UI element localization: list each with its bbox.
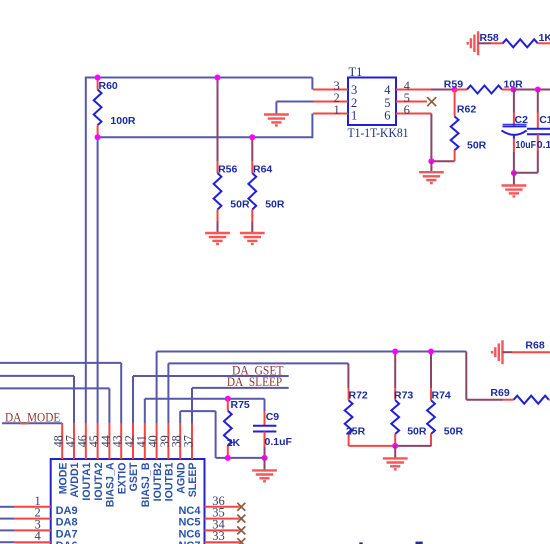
svg-text:R64: R64 — [253, 164, 272, 176]
svg-text:50R: 50R — [467, 140, 487, 152]
svg-text:IOUTB1: IOUTB1 — [164, 462, 176, 501]
svg-text:DA8: DA8 — [56, 517, 78, 529]
svg-text:R75: R75 — [231, 399, 250, 411]
svg-text:1: 1 — [351, 109, 357, 123]
svg-text:50R: 50R — [265, 199, 285, 211]
svg-text:AVDD1: AVDD1 — [69, 462, 81, 497]
svg-text:MODE: MODE — [57, 463, 69, 495]
svg-text:AGND: AGND — [175, 462, 187, 494]
svg-text:NC5: NC5 — [178, 517, 200, 529]
svg-text:DA6: DA6 — [56, 540, 78, 544]
svg-text:4: 4 — [34, 529, 41, 543]
svg-text:R73: R73 — [394, 390, 413, 402]
svg-text:NC4: NC4 — [178, 505, 201, 517]
svg-text:R68: R68 — [525, 340, 544, 352]
svg-text:10uF: 10uF — [516, 139, 537, 151]
svg-text:6: 6 — [404, 103, 410, 117]
svg-text:R72: R72 — [349, 390, 368, 402]
svg-text:1: 1 — [333, 103, 339, 117]
svg-text:C2: C2 — [515, 114, 529, 126]
svg-text:0.1uF: 0.1uF — [537, 139, 550, 151]
svg-text:2: 2 — [351, 96, 357, 110]
svg-text:50R: 50R — [230, 199, 250, 211]
svg-text:R62: R62 — [457, 103, 476, 115]
svg-text:37: 37 — [182, 435, 196, 447]
svg-text:DA9: DA9 — [56, 505, 78, 517]
svg-text:50R: 50R — [407, 426, 427, 438]
svg-text:BIASJ_B: BIASJ_B — [140, 462, 152, 507]
svg-text:R69: R69 — [490, 387, 509, 399]
svg-text:R56: R56 — [218, 164, 237, 176]
svg-text:DA_MODE: DA_MODE — [5, 410, 61, 424]
svg-text:1K: 1K — [539, 32, 550, 44]
svg-text:4: 4 — [384, 83, 391, 97]
svg-text:NC7: NC7 — [178, 540, 200, 544]
svg-text:EXTIO: EXTIO — [116, 463, 128, 495]
svg-text:DA_SLEEP: DA_SLEEP — [227, 375, 282, 389]
svg-text:2K: 2K — [227, 437, 241, 449]
svg-text:BIASJ_A: BIASJ_A — [105, 462, 117, 507]
svg-text:25R: 25R — [346, 426, 366, 438]
svg-text:GSET: GSET — [128, 462, 140, 491]
svg-text:33: 33 — [212, 529, 225, 543]
svg-text:NC6: NC6 — [178, 528, 200, 540]
svg-text:IOUTA1: IOUTA1 — [81, 462, 93, 500]
svg-text:T1: T1 — [349, 65, 363, 79]
svg-text:SLEEP: SLEEP — [187, 463, 199, 498]
svg-text:DA7: DA7 — [56, 528, 78, 540]
svg-text:C9: C9 — [266, 411, 280, 423]
svg-text:0.1uF: 0.1uF — [265, 436, 293, 448]
svg-text:IOUTA2: IOUTA2 — [93, 462, 105, 500]
svg-text:5: 5 — [384, 96, 390, 110]
svg-text:C1: C1 — [539, 114, 550, 126]
svg-text:50R: 50R — [444, 426, 464, 438]
svg-text:R58: R58 — [480, 32, 499, 44]
svg-text:R60: R60 — [99, 80, 118, 92]
svg-text:6: 6 — [384, 109, 390, 123]
svg-text:3: 3 — [351, 83, 357, 97]
svg-text:T1-1T-KK81: T1-1T-KK81 — [348, 126, 409, 140]
svg-text:R74: R74 — [432, 390, 451, 402]
svg-text:100R: 100R — [110, 115, 136, 127]
svg-text:IOUTB2: IOUTB2 — [152, 462, 164, 501]
